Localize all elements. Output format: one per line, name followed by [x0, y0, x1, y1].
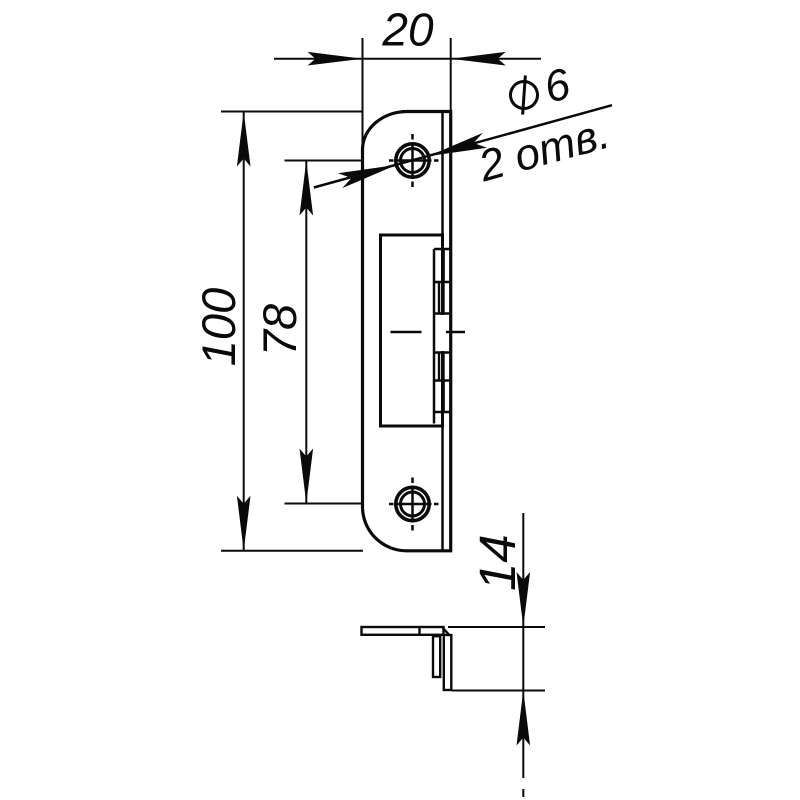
svg-text:78: 78 — [253, 304, 306, 356]
svg-text:14: 14 — [469, 534, 526, 591]
dimension 14 arrows — [517, 572, 531, 627]
diameter symbol — [506, 74, 542, 117]
centerline dashes — [391, 331, 466, 334]
plate outline front view — [362, 112, 450, 551]
hole leader line — [314, 105, 612, 187]
svg-text:100: 100 — [192, 288, 245, 366]
side view inner tab — [433, 636, 440, 677]
latch lip strip — [434, 249, 451, 424]
hole leader arrows — [338, 165, 397, 188]
latch opening — [381, 235, 443, 426]
latch lip strip hatching — [439, 282, 444, 381]
side view flange — [362, 627, 444, 635]
dimension 100 line — [221, 112, 363, 551]
screw hole bottom — [389, 478, 439, 531]
dimension 20 line — [274, 38, 541, 151]
dimension 78 arrows — [300, 161, 314, 216]
svg-text:20: 20 — [381, 4, 434, 56]
dimension 20 arrows — [308, 52, 363, 66]
side view bend corner — [443, 628, 452, 638]
dimension 14 line — [448, 513, 545, 797]
side view flange seam — [418, 627, 420, 635]
latch lip edge line in plain sections — [442, 249, 445, 412]
latch lip strip middle pocket — [435, 315, 449, 351]
dimension 78 line — [285, 161, 394, 504]
dimension 100 arrows — [237, 112, 251, 167]
plate bend line — [441, 112, 444, 250]
side view outer lip — [444, 635, 452, 690]
screw hole top — [389, 134, 439, 187]
